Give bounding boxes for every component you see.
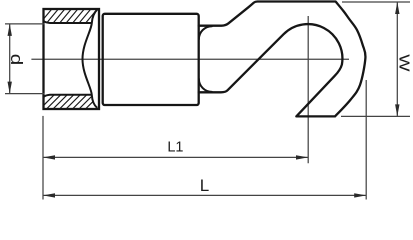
d arrow down	[8, 82, 12, 94]
d extension top	[5, 23, 45, 25]
dimension W: dim line	[396, 2, 398, 116]
dimension d: dim line	[9, 24, 11, 94]
W extension top	[342, 1, 410, 3]
barrel inner bore bottom line	[44, 95, 92, 97]
body rectangle	[103, 14, 199, 105]
hook outline	[199, 2, 366, 117]
extension line left (from barrel)	[42, 116, 44, 200]
W extension bottom	[341, 115, 410, 117]
L arrow left	[43, 193, 55, 197]
centerline main horizontal	[31, 58, 349, 60]
L1 arrow left	[43, 155, 55, 159]
L1 arrow right	[296, 155, 308, 159]
svg-text:L: L	[200, 176, 209, 195]
barrel inner bore top line	[44, 21, 92, 23]
svg-text:L1: L1	[167, 140, 183, 156]
barrel bell mouth S-curve	[83, 10, 98, 108]
L dimension line	[43, 194, 366, 196]
hatch bottom band	[35, 90, 105, 114]
W arrow down	[395, 104, 399, 116]
svg-text:d: d	[7, 54, 26, 65]
d arrow up	[8, 24, 12, 36]
neck fillet arc top	[199, 26, 212, 39]
hatch top band	[36, 4, 108, 28]
W arrow up	[395, 2, 399, 14]
svg-text:W: W	[396, 54, 413, 71]
centerline hook hole vertical	[307, 16, 309, 163]
neck fillet arc bottom	[199, 79, 212, 92]
d extension bottom	[5, 93, 45, 95]
extension line right (hook rightmost)	[365, 80, 367, 200]
barrel outline	[44, 9, 100, 109]
L arrow right	[354, 193, 366, 197]
L1 dimension line	[43, 156, 308, 158]
